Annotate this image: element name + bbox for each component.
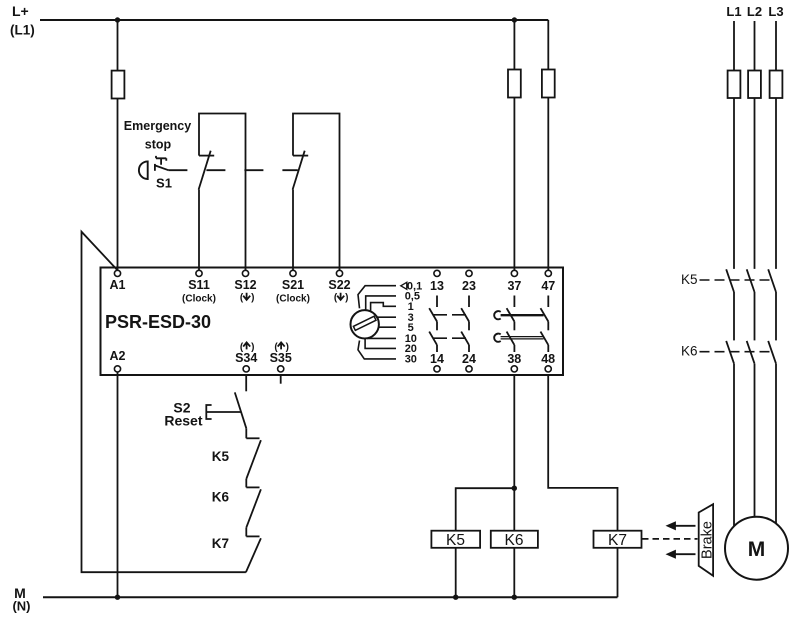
contact 37-38 blade B (507, 332, 515, 345)
svg-text:38: 38 (507, 352, 521, 366)
wire: fuse F2 to terminal 37 (513, 98, 515, 271)
arrow upper head (666, 521, 676, 530)
fuse F6 (770, 71, 783, 99)
junction: K5 coil / M rail (453, 595, 458, 600)
contact K7 aux blade (NC) (246, 538, 261, 572)
contact K5 aux tick (246, 437, 259, 439)
wire: rail end to fuse F3 (547, 20, 549, 70)
wire: rail to fuse F1 (117, 20, 119, 71)
forced-guidance bar upper (solid) (501, 314, 544, 316)
svg-text:K5: K5 (446, 532, 465, 549)
contact K6 aux blade (NC) (246, 489, 261, 527)
contact K6.3 blade (768, 341, 776, 364)
terminal S21 (290, 270, 296, 276)
svg-text:S35: S35 (270, 351, 292, 365)
wire: 23 upper lead (468, 296, 470, 308)
safety relay U1 PSR-ESD-30 body (101, 268, 564, 376)
svg-text:): ) (251, 293, 254, 304)
contact K5.3 blade (768, 269, 776, 292)
svg-text:(: ( (334, 293, 338, 304)
contact K7 aux tick (246, 535, 259, 537)
terminal A1 (114, 270, 120, 276)
pin label (up) S35 (274, 342, 289, 353)
svg-text:): ) (345, 293, 348, 304)
svg-text:K6: K6 (505, 532, 524, 549)
svg-text:48: 48 (541, 352, 555, 366)
forced-guidance hook lower (494, 334, 501, 342)
contact 23-24 blade B (461, 332, 469, 345)
pin label (down) S22 (334, 293, 349, 304)
fuse F5 (748, 71, 761, 99)
arrow lower head (666, 550, 676, 559)
wire: bracket S21-S22 channel loop (293, 114, 340, 271)
svg-text:14: 14 (430, 352, 444, 366)
svg-text:(Clock): (Clock) (182, 294, 216, 305)
svg-text:23: 23 (462, 279, 476, 293)
svg-text:A2: A2 (110, 349, 126, 363)
contact K5.1 blade (726, 269, 734, 292)
wire: K5.3 to K6.3 (775, 292, 777, 340)
svg-text:37: 37 (507, 279, 521, 293)
timer dial slot (353, 316, 376, 330)
wire: K6 coil to M rail (513, 548, 515, 597)
wire: K5.1 to K6.1 (733, 292, 735, 340)
terminal S34 (243, 366, 249, 372)
wire: top supply rail L+ (40, 19, 548, 21)
wire: 13-14 mid lead (436, 322, 438, 331)
terminal 24 (466, 366, 472, 372)
terminal 37 (511, 270, 517, 276)
fuse F4 (728, 71, 741, 99)
wire: S1.1 blade to terminal S11 (198, 190, 200, 271)
timer dial knob (351, 310, 379, 338)
wire: fuse F3 to terminal 47 (547, 98, 549, 271)
wire: 23-24 mid lead (468, 322, 470, 331)
contact S1.1 blade (NC) (199, 151, 211, 190)
svg-text:S34: S34 (235, 351, 257, 365)
svg-text:stop: stop (145, 138, 172, 152)
svg-text:S1: S1 (156, 176, 172, 191)
terminal A2 (114, 366, 120, 372)
wire: S35 stub (280, 375, 282, 383)
svg-text:L1: L1 (726, 4, 741, 19)
contact 13-14 blade B (429, 332, 437, 345)
timer scale line 10 (367, 337, 396, 339)
forced-guidance bar lower (double) (501, 337, 544, 339)
svg-text:M: M (748, 538, 766, 561)
S1 mechanical linkage (dashed) (168, 169, 297, 171)
contact 37-38 blade A (507, 308, 515, 321)
svg-text:K7: K7 (212, 536, 229, 551)
svg-text:24: 24 (462, 352, 476, 366)
contact K6.2 blade (747, 341, 755, 364)
wire: bottom M rail (43, 596, 618, 598)
svg-text:(N): (N) (12, 599, 30, 614)
wire: 24 lower lead (468, 345, 470, 352)
forced-guidance hook upper (494, 311, 501, 319)
arrow upper (brake action) (675, 525, 696, 527)
coil K7 (594, 531, 642, 548)
contact S1.1 fixed tick (199, 155, 214, 157)
svg-text:30: 30 (405, 354, 417, 366)
fuse F2 (508, 70, 521, 98)
timer scale line 3 (377, 316, 397, 318)
wire: coil bus to K5 coil (456, 488, 515, 531)
wire: bracket S11-S12 channel loop (199, 114, 246, 271)
terminal S12 (242, 270, 248, 276)
wire: 48 lower lead (547, 345, 549, 352)
wire: L1 to fuse F4 (733, 21, 735, 71)
contact K5.2 blade (747, 269, 755, 292)
coil K5 (431, 531, 480, 548)
S1 plunger (154, 164, 156, 171)
wire: S34 to reset contact (245, 375, 247, 391)
fuse F1 (112, 71, 125, 99)
junction: K6 coil / M rail (512, 595, 517, 600)
timer scale line 1 (371, 303, 396, 311)
coil K6 (491, 531, 538, 548)
svg-text:(Clock): (Clock) (276, 294, 310, 305)
svg-text:K5: K5 (212, 449, 230, 464)
timer scale line 5 (379, 326, 397, 328)
linkage 13-23 upper (dashed) (433, 314, 466, 316)
wire: fuse F6 to contact K5.3 (775, 98, 777, 269)
svg-text:K6: K6 (212, 490, 230, 505)
terminal S11 (196, 270, 202, 276)
svg-text:Brake: Brake (699, 521, 715, 559)
emergency stop S1 mushroom head (139, 161, 148, 179)
svg-text:): ) (251, 342, 254, 353)
wire: fuse F1 to terminal A1 (117, 99, 119, 271)
svg-text:(L1): (L1) (10, 23, 35, 38)
pin label (down) S12 (240, 293, 255, 304)
timer scale line 20 (365, 338, 396, 348)
wire: rail to fuse F2 (513, 20, 515, 70)
timer pointer triangle (401, 282, 407, 289)
svg-text:S12: S12 (234, 278, 256, 292)
svg-text:Emergency: Emergency (124, 119, 191, 133)
svg-text:K5: K5 (681, 272, 698, 287)
wire: K6.1 to motor (733, 364, 735, 528)
S2 push actuator (206, 405, 241, 419)
contact S2 blade (NO reset) (235, 392, 247, 428)
wire: fuse F4 to contact K5.1 (733, 98, 735, 269)
svg-text:PSR-ESD-30: PSR-ESD-30 (105, 312, 211, 332)
junction: rail / fuse F1 drop (115, 17, 120, 22)
contact 47-48 blade A (541, 308, 549, 321)
svg-text:S11: S11 (188, 278, 210, 292)
wire: K5 aux to K6 aux (245, 479, 247, 488)
terminal S35 (278, 366, 284, 372)
contact K6 aux tick (246, 486, 259, 488)
timer scale line 0,5 (366, 296, 396, 311)
timer scale line 0,1 (358, 286, 396, 309)
timer scale line 30 (358, 341, 396, 359)
wire: 38 lower lead (513, 345, 515, 352)
terminal 38 (511, 366, 517, 372)
S1 link to contacts (155, 165, 169, 170)
pin label (up) S34 (240, 342, 255, 353)
contact K6.1 blade (726, 341, 734, 364)
wire: 47 upper lead (547, 296, 549, 308)
svg-text:47: 47 (541, 279, 555, 293)
wire: feedback loop return to A1 (82, 232, 246, 573)
wire: K5 coil to M rail (455, 548, 457, 597)
terminal 23 (466, 270, 472, 276)
motor M1 (725, 517, 788, 580)
arrow lower (brake action) (675, 553, 696, 555)
terminal 14 (434, 366, 440, 372)
svg-text:K7: K7 (608, 532, 627, 549)
contact 23-24 blade A (461, 308, 469, 321)
svg-text:(: ( (240, 293, 244, 304)
terminal 47 (545, 270, 551, 276)
contact S1.2 blade (NC) (293, 151, 305, 190)
terminal S22 (336, 270, 342, 276)
svg-text:K6: K6 (681, 344, 698, 359)
wire: 37-38 mid lead (513, 322, 515, 331)
wire: K6.2 to motor (754, 364, 756, 520)
svg-text:L2: L2 (747, 4, 762, 19)
svg-text:): ) (286, 342, 289, 353)
wire: S1.2 blade to terminal S21 (292, 190, 294, 271)
brake B1 body (699, 504, 713, 576)
fuse F3 (542, 70, 555, 98)
contact S1.2 fixed tick (293, 155, 308, 157)
svg-text:L+: L+ (12, 3, 29, 19)
wire: 14 lower lead (436, 345, 438, 352)
contact 47-48 blade B (541, 332, 549, 345)
wire: 13 upper lead (436, 296, 438, 308)
linkage K6 poles (dashed) (700, 351, 771, 353)
wire: L2 to fuse F5 (754, 21, 756, 71)
contact K5 aux blade (NC) (246, 440, 261, 479)
svg-text:A1: A1 (110, 278, 126, 292)
svg-text:Reset: Reset (164, 412, 202, 428)
wire: 38 to coil bus (513, 375, 515, 530)
wire: K5.2 to K6.2 (754, 292, 756, 340)
terminal 13 (434, 270, 440, 276)
linkage 13-23 lower (dashed) (433, 337, 466, 339)
terminal 48 (545, 366, 551, 372)
wire: L3 to fuse F6 (775, 21, 777, 71)
wire: A2 to M rail (117, 372, 119, 597)
svg-text:S21: S21 (282, 278, 304, 292)
svg-text:L3: L3 (768, 4, 783, 19)
wire: fuse F5 to contact K5.2 (754, 98, 756, 269)
junction: 38 wire / coil bus (512, 486, 517, 491)
svg-text:S22: S22 (328, 278, 350, 292)
wire: K6 aux to K7 aux (245, 528, 247, 537)
linkage K5 poles (dashed) (700, 279, 771, 281)
junction: A2 / M rail (115, 595, 120, 600)
wire: S2 to K5 aux (245, 428, 247, 438)
wire: K6.3 to motor (775, 364, 777, 526)
wire: K7 coil to M rail (617, 548, 619, 597)
wire: 37 upper lead (513, 296, 515, 308)
svg-text:13: 13 (430, 279, 444, 293)
wire: 47-48 mid lead (547, 322, 549, 331)
S1 push actuator T-bar (156, 156, 166, 165)
svg-text:5: 5 (408, 322, 414, 334)
linkage K7 to brake (dashed) (642, 538, 698, 540)
contact 13-14 blade A (429, 308, 437, 321)
wire: 48 to K7 coil (548, 375, 617, 530)
junction: rail / branch 37 drop (512, 17, 517, 22)
